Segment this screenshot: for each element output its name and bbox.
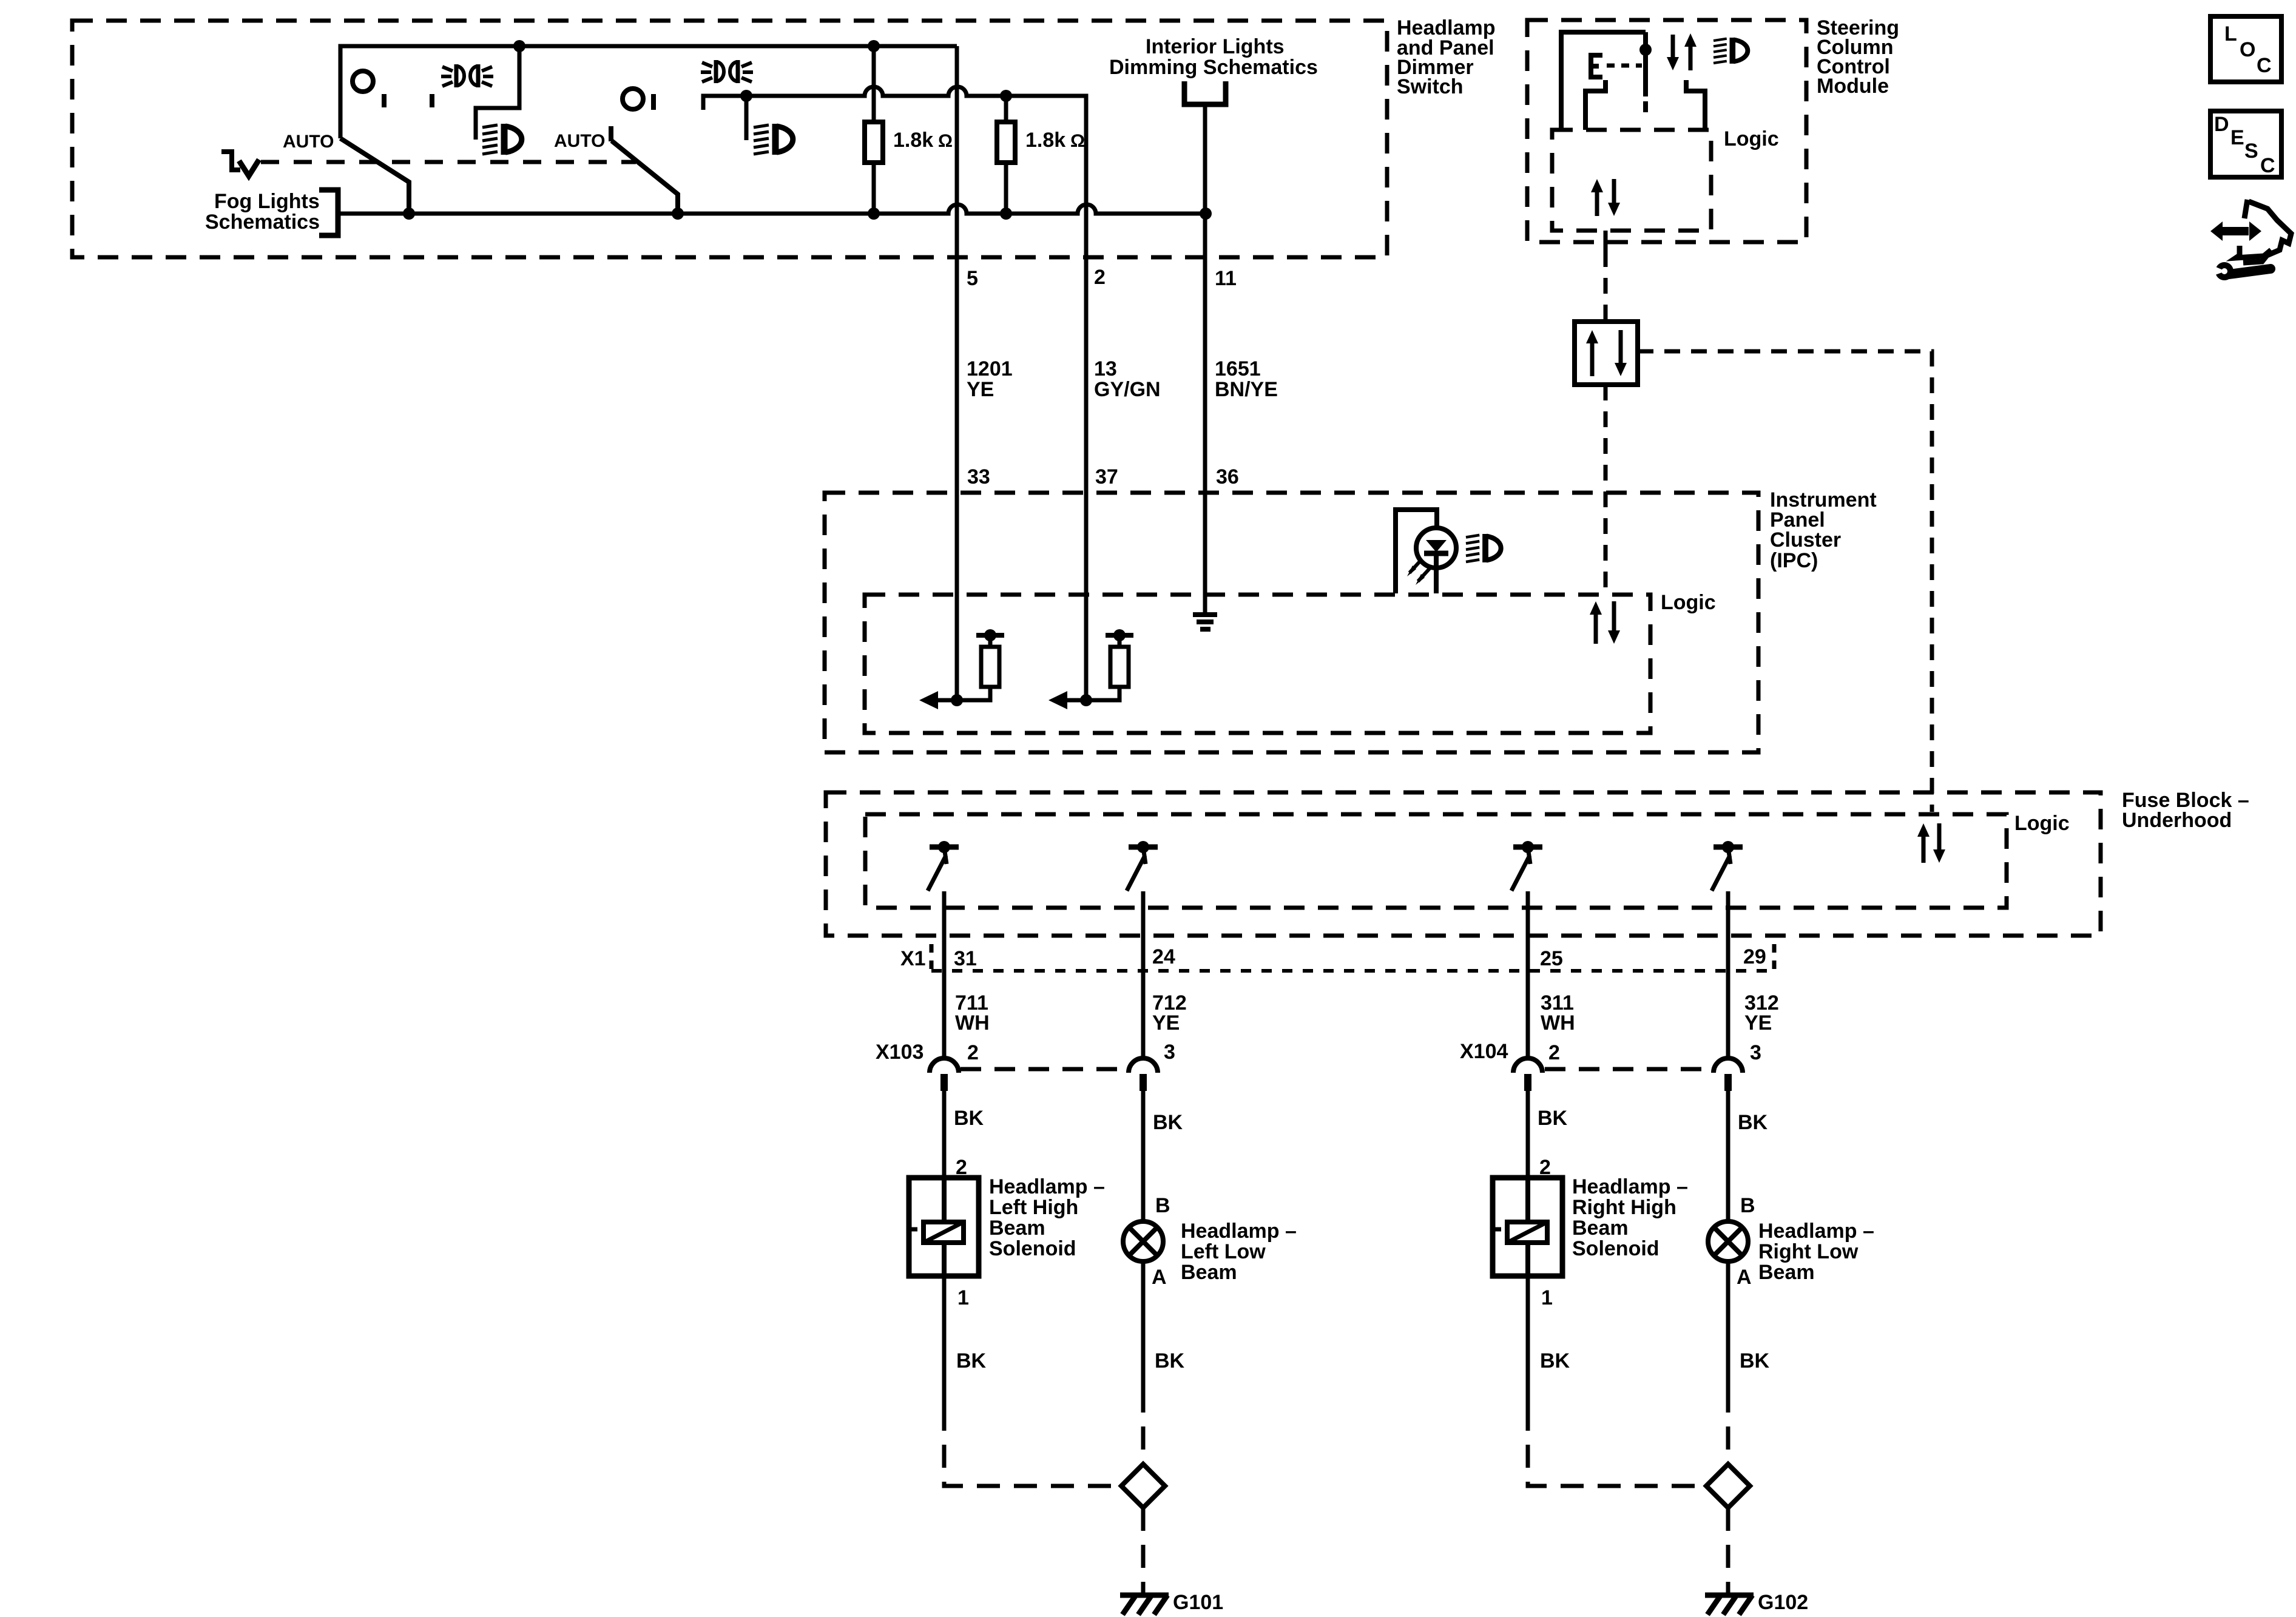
svg-text:2: 2	[967, 1041, 979, 1064]
svg-text:Logic: Logic	[1724, 127, 1779, 150]
label: Instrument Panel Cluster (IPC)	[1770, 488, 1877, 572]
label: Interior Lights Dimming Schematics	[1109, 35, 1318, 79]
svg-text:29: 29	[1743, 945, 1766, 968]
switch S2: dimmer/DRL switch OFF position mark	[623, 89, 643, 109]
wire: right low beam feed output to connector	[1726, 891, 1730, 1059]
resistor: pull-up with tap (wire 33)	[957, 687, 990, 700]
svg-text:X103: X103	[876, 1041, 923, 1064]
wire: low beam Right to splice (solid)	[1726, 1262, 1730, 1389]
svg-text:WH: WH	[1541, 1011, 1575, 1035]
wire: BK to Right high beam solenoid	[1526, 1091, 1530, 1178]
logic box (Fuse Block)	[865, 814, 2007, 908]
node: tap dot (wire 37)	[1113, 629, 1126, 641]
icon: parking lamps position (switch S2)	[701, 60, 753, 83]
connector terminal: X104 pin 3	[1714, 1058, 1743, 1091]
svg-text:Ω: Ω	[938, 131, 953, 151]
splice: ground splice (Left)	[1121, 1464, 1165, 1508]
icon: parking lamps position (switch S1)	[441, 64, 493, 87]
label: Fuse Block - Underhood	[2122, 789, 2249, 832]
wire: pin 5 riser / circuit 1201 YE down to IPC pin 33	[955, 46, 959, 700]
icon box: DESC	[2210, 111, 2281, 177]
wire: switch output bus (bottom) with hops over pin5 and pin2 risers	[340, 204, 1206, 214]
ground: IPC internal ground (pin 36)	[1193, 612, 1217, 632]
svg-text:D: D	[2214, 113, 2229, 136]
svg-text:Right High: Right High	[1572, 1196, 1676, 1219]
svg-text:Solenoid: Solenoid	[1572, 1237, 1660, 1260]
svg-text:BK: BK	[1738, 1111, 1768, 1134]
svg-text:Beam: Beam	[1572, 1217, 1629, 1240]
svg-text:A: A	[1152, 1266, 1167, 1289]
svg-text:X1: X1	[900, 947, 926, 970]
connector terminal: X103 pin 2	[930, 1058, 959, 1091]
wire: solenoid Right to splice (solid part)	[1526, 1276, 1530, 1408]
switch S1 wiper (AUTO position to output)	[340, 138, 409, 214]
svg-text:BK: BK	[956, 1349, 987, 1372]
svg-text:WH: WH	[955, 1011, 990, 1035]
symbol: logic input arrow (wire 33)	[938, 698, 957, 703]
wire: dashed to ground splice (Right solenoid)	[1528, 1408, 1705, 1486]
resistor R1 1.8k ohm	[865, 46, 883, 214]
wire: serial data out of SCCM	[1604, 231, 1608, 251]
svg-text:31: 31	[954, 947, 977, 970]
svg-text:BK: BK	[1538, 1107, 1568, 1130]
symbol: gateway arrows	[1586, 330, 1627, 376]
circuit label 312 YE	[1744, 991, 1779, 1035]
module box: Headlamp and Panel Dimmer Switch	[72, 21, 1387, 257]
wire: serial data (dashed) to gateway	[1604, 251, 1608, 322]
switch S2 position tick	[651, 94, 656, 110]
svg-text:Headlamp –: Headlamp –	[1758, 1220, 1874, 1243]
circuit label 711 WH	[955, 991, 990, 1035]
icon: diagnostic connector with double arrow	[2210, 200, 2291, 263]
wire: serial data (dashed) gateway to IPC	[1604, 385, 1608, 592]
svg-text:YE: YE	[967, 378, 994, 401]
svg-text:G101: G101	[1173, 1591, 1223, 1614]
ground G101	[1120, 1595, 1169, 1615]
icon box: LOC	[2210, 16, 2281, 82]
wire: BK to Left high beam solenoid	[942, 1091, 947, 1178]
svg-text:YE: YE	[1744, 1011, 1772, 1035]
svg-text:Beam: Beam	[989, 1217, 1045, 1240]
lamp: Headlamp Right Low Beam	[1708, 1221, 1748, 1261]
circuit label 712 YE	[1152, 991, 1187, 1035]
symbol: serial data arrows in fuse block logic	[1917, 823, 1945, 863]
lamp: Headlamp Left Low Beam	[1123, 1221, 1163, 1261]
switch S1 position tick 1	[382, 94, 387, 107]
svg-text:BK: BK	[1153, 1111, 1183, 1134]
label: Headlamp and Panel Dimmer Switch	[1397, 16, 1496, 98]
resistor: pull-up with tap (wire 37)	[1086, 687, 1119, 700]
node: junction on top bus at headlamp contact branch	[513, 40, 525, 52]
svg-text:A: A	[1737, 1266, 1752, 1289]
svg-text:Cluster: Cluster	[1770, 528, 1841, 552]
svg-text:YE: YE	[1152, 1011, 1180, 1035]
value label: 1.8k ohm (R2)	[1025, 129, 1085, 152]
svg-text:Solenoid: Solenoid	[989, 1237, 1076, 1260]
label: Steering Column Control Module	[1817, 16, 1899, 98]
icon: headlamps (IPC indicator)	[1466, 534, 1501, 562]
svg-text:Module: Module	[1817, 75, 1889, 98]
wire: headlamp switch common feed (top bus)	[340, 46, 957, 138]
symbol: headlamp beam select arrows (SCCM)	[1667, 33, 1697, 70]
svg-text:BK: BK	[954, 1107, 984, 1130]
symbol: logic input arrow (wire 37)	[1067, 698, 1086, 703]
solenoid: Headlamp Right High Beam Solenoid	[1493, 1178, 1562, 1276]
label: Headlamp - Left High Beam Solenoid	[989, 1175, 1105, 1260]
node: S1 wiper junction	[403, 208, 415, 220]
svg-text:5: 5	[967, 267, 978, 290]
svg-text:Switch: Switch	[1397, 75, 1464, 98]
svg-text:Interior Lights: Interior Lights	[1146, 35, 1285, 58]
icon: wrench	[2210, 262, 2271, 280]
svg-text:S: S	[2244, 140, 2258, 163]
svg-text:Logic: Logic	[1661, 591, 1716, 614]
ground G102	[1705, 1595, 1754, 1615]
wire: dashed into splice (Left)	[1141, 1389, 1146, 1464]
svg-text:Headlamp –: Headlamp –	[1181, 1220, 1297, 1243]
svg-text:B: B	[1155, 1194, 1170, 1217]
relay driver switch: right high beam feed	[1511, 841, 1542, 891]
svg-text:Schematics: Schematics	[205, 211, 320, 234]
label: Fog Lights Schematics	[205, 190, 320, 234]
wire: dashed to ground splice (Left solenoid)	[944, 1408, 1121, 1486]
svg-text:Fog Lights: Fog Lights	[214, 190, 320, 213]
switch S1 position tick 2	[430, 94, 434, 107]
node: R1 bottom junction	[868, 208, 880, 220]
wire: stalk contact drop (SCCM)	[1643, 32, 1648, 96]
svg-text:X104: X104	[1460, 1040, 1508, 1063]
relay driver switch: right low beam feed	[1712, 841, 1743, 891]
wire: right high beam feed output to connector	[1526, 891, 1530, 1059]
LED: headlamps-on indicator (IPC)	[1396, 510, 1456, 593]
connector X103 body (dashed)	[961, 1067, 1125, 1072]
switch S2 wiper	[612, 141, 678, 214]
wire: splice to ground (Left)	[1141, 1508, 1146, 1593]
wire: left high beam feed output to connector	[942, 891, 947, 1059]
node: junction at R2 top	[1000, 90, 1012, 102]
wire: step contact to logic (left, SCCM)	[1585, 80, 1606, 130]
resistor R2 1.8k ohm	[997, 96, 1015, 214]
switch S2 AUTO contact tick	[609, 126, 613, 141]
svg-text:1.8k: 1.8k	[1025, 129, 1065, 152]
symbol: serial data arrows in IPC logic	[1590, 601, 1620, 644]
svg-text:(IPC): (IPC)	[1770, 549, 1818, 572]
wire: step contact to logic (right, SCCM)	[1686, 80, 1705, 130]
circuit label 1201 YE	[967, 357, 1013, 401]
svg-text:Underhood: Underhood	[2122, 809, 2232, 832]
svg-text:2: 2	[1548, 1041, 1560, 1064]
svg-text:BK: BK	[1155, 1349, 1185, 1372]
node: tap dot (wire 33)	[984, 629, 996, 641]
off-page arrow: auto light control	[221, 152, 259, 176]
svg-text:Ω: Ω	[1070, 131, 1085, 151]
svg-text:1: 1	[1541, 1286, 1553, 1309]
symbol: serial data gateway box	[1575, 322, 1638, 385]
module box: Instrument Panel Cluster (IPC)	[825, 493, 1758, 752]
svg-text:E: E	[2230, 126, 2244, 149]
wire: branch to headlamp-on contact of switch 1	[476, 46, 519, 140]
svg-text:AUTO: AUTO	[554, 131, 605, 151]
svg-text:Right Low: Right Low	[1758, 1240, 1859, 1263]
svg-text:Headlamp –: Headlamp –	[1572, 1175, 1688, 1198]
wire: pin 11 riser / circuit 1651 BN/YE down to IPC pin 36 ground	[1203, 104, 1207, 612]
svg-text:C: C	[2257, 54, 2272, 77]
switch S1: headlamp switch (rotary) OFF position mark	[353, 71, 373, 92]
svg-text:36: 36	[1216, 465, 1239, 488]
circuit label 311 WH	[1541, 991, 1575, 1035]
wire: splice to ground (Right)	[1726, 1508, 1730, 1593]
svg-text:3: 3	[1750, 1041, 1761, 1064]
wire: multifunction stalk frame (SCCM)	[1561, 32, 1646, 130]
node: junction headlamp contact (S2)	[740, 90, 752, 102]
connector line X1 (dotted)	[931, 969, 1774, 973]
wire: solenoid Left to splice (solid part)	[942, 1276, 947, 1408]
wire: dashed AUTO control line	[261, 160, 636, 164]
relay driver switch: left high beam feed	[928, 841, 959, 891]
svg-text:2: 2	[1094, 266, 1106, 289]
node: junction with pin 11 wire	[1200, 208, 1212, 220]
logic box (IPC)	[865, 595, 1650, 733]
svg-text:Logic: Logic	[2014, 812, 2070, 835]
node: junction on top bus at 1.8k resistor R1	[868, 40, 880, 52]
node: R2 bottom junction	[1000, 208, 1012, 220]
svg-text:BK: BK	[1740, 1349, 1770, 1372]
label: Headlamp - Right High Beam Solenoid	[1572, 1175, 1688, 1260]
svg-text:3: 3	[1164, 1041, 1175, 1064]
wire: BK to Left low beam bulb	[1141, 1091, 1146, 1221]
node: junction wire 37 in IPC	[1080, 694, 1092, 706]
module box: Steering Column Control Module	[1527, 20, 1806, 242]
svg-text:B: B	[1740, 1194, 1755, 1217]
svg-text:AUTO: AUTO	[283, 132, 334, 152]
circuit label 13 GY/GN	[1094, 357, 1161, 401]
label: Headlamp - Right Low Beam	[1758, 1220, 1874, 1284]
svg-text:25: 25	[1540, 947, 1563, 970]
wire: dashed into splice (Right)	[1726, 1389, 1730, 1464]
LED emission arrows	[1407, 559, 1430, 585]
circuit label 1651 BN/YE	[1215, 357, 1278, 401]
splice: ground splice (Right)	[1706, 1464, 1750, 1508]
icon: headlamps (SCCM)	[1714, 38, 1747, 64]
svg-text:BK: BK	[1540, 1349, 1570, 1372]
svg-text:Left High: Left High	[989, 1196, 1078, 1219]
wire: serial data (dashed) gateway to fuse block	[1638, 351, 1932, 812]
svg-text:1.8k: 1.8k	[893, 129, 933, 152]
svg-text:1201: 1201	[967, 357, 1013, 380]
module box: Fuse Block - Underhood	[826, 792, 2101, 936]
svg-text:C: C	[2260, 154, 2275, 177]
node: junction wire 33 in IPC	[951, 694, 963, 706]
svg-text:13: 13	[1094, 357, 1117, 380]
connector terminal: X103 pin 3	[1129, 1058, 1158, 1091]
svg-text:L: L	[2224, 22, 2237, 46]
svg-text:Dimming Schematics: Dimming Schematics	[1109, 56, 1318, 79]
wire: stub to headlamp icon (S2)	[745, 96, 749, 140]
node: S2 wiper junction	[672, 208, 684, 220]
wire: low beam Left to splice (solid)	[1141, 1262, 1146, 1389]
svg-text:O: O	[2240, 38, 2255, 61]
svg-text:11: 11	[1215, 267, 1237, 290]
off-page bracket: fog lights schematics	[319, 190, 338, 235]
relay driver switch: left low beam feed	[1127, 841, 1158, 891]
wire: lamp contact bus of switch S2 with hops over R1 and pin5 riser, to pin 2 riser	[703, 87, 1086, 700]
svg-text:33: 33	[967, 465, 990, 488]
wire: left low beam feed output to connector	[1141, 891, 1146, 1059]
svg-text:Beam: Beam	[1758, 1261, 1815, 1284]
solenoid: Headlamp Left High Beam Solenoid	[909, 1178, 979, 1276]
off-page bracket: Interior Lights Dimming Schematics	[1184, 81, 1226, 104]
connector terminal: X104 pin 2	[1513, 1058, 1542, 1091]
icon: headlamps position (switch S1)	[482, 124, 522, 155]
svg-text:GY/GN: GY/GN	[1094, 378, 1161, 401]
connector X1 left end mark	[930, 944, 934, 971]
svg-text:G102: G102	[1758, 1591, 1808, 1614]
svg-text:Headlamp –: Headlamp –	[989, 1175, 1105, 1198]
label: Headlamp - Left Low Beam	[1181, 1220, 1297, 1284]
symbol: serial data arrows in SCCM logic	[1591, 179, 1620, 216]
svg-text:1: 1	[957, 1286, 969, 1309]
logic box (SCCM)	[1552, 130, 1711, 231]
switch: flash-to-pass contact E (SCCM)	[1591, 55, 1642, 77]
node: junction on stalk drop	[1639, 44, 1652, 56]
svg-text:1651: 1651	[1215, 357, 1261, 380]
svg-text:24: 24	[1152, 945, 1175, 968]
connector X1 right end mark	[1772, 944, 1777, 971]
wire: BK to Right low beam bulb	[1726, 1091, 1730, 1221]
icon: headlamps position (switch S2)	[754, 124, 793, 155]
svg-text:37: 37	[1095, 465, 1118, 488]
value label: 1.8k ohm (R1)	[893, 129, 953, 152]
svg-text:Beam: Beam	[1181, 1261, 1237, 1284]
svg-text:BN/YE: BN/YE	[1215, 378, 1278, 401]
wire: wiper gap segment	[1643, 101, 1648, 112]
connector X104 body (dashed)	[1545, 1067, 1710, 1072]
svg-text:Left Low: Left Low	[1181, 1240, 1266, 1263]
